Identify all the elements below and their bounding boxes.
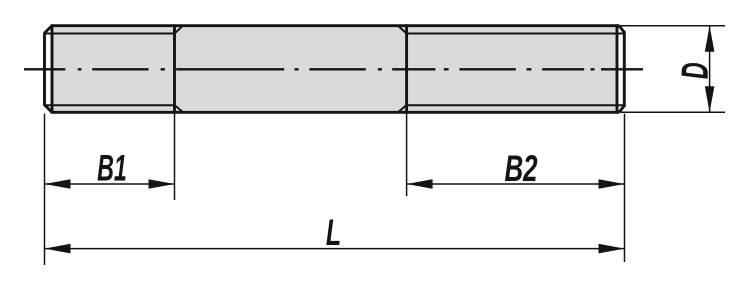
svg-text:D: D	[674, 62, 716, 79]
svg-text:L: L	[326, 211, 341, 253]
svg-text:B2: B2	[504, 147, 537, 189]
svg-text:B1: B1	[97, 147, 127, 189]
